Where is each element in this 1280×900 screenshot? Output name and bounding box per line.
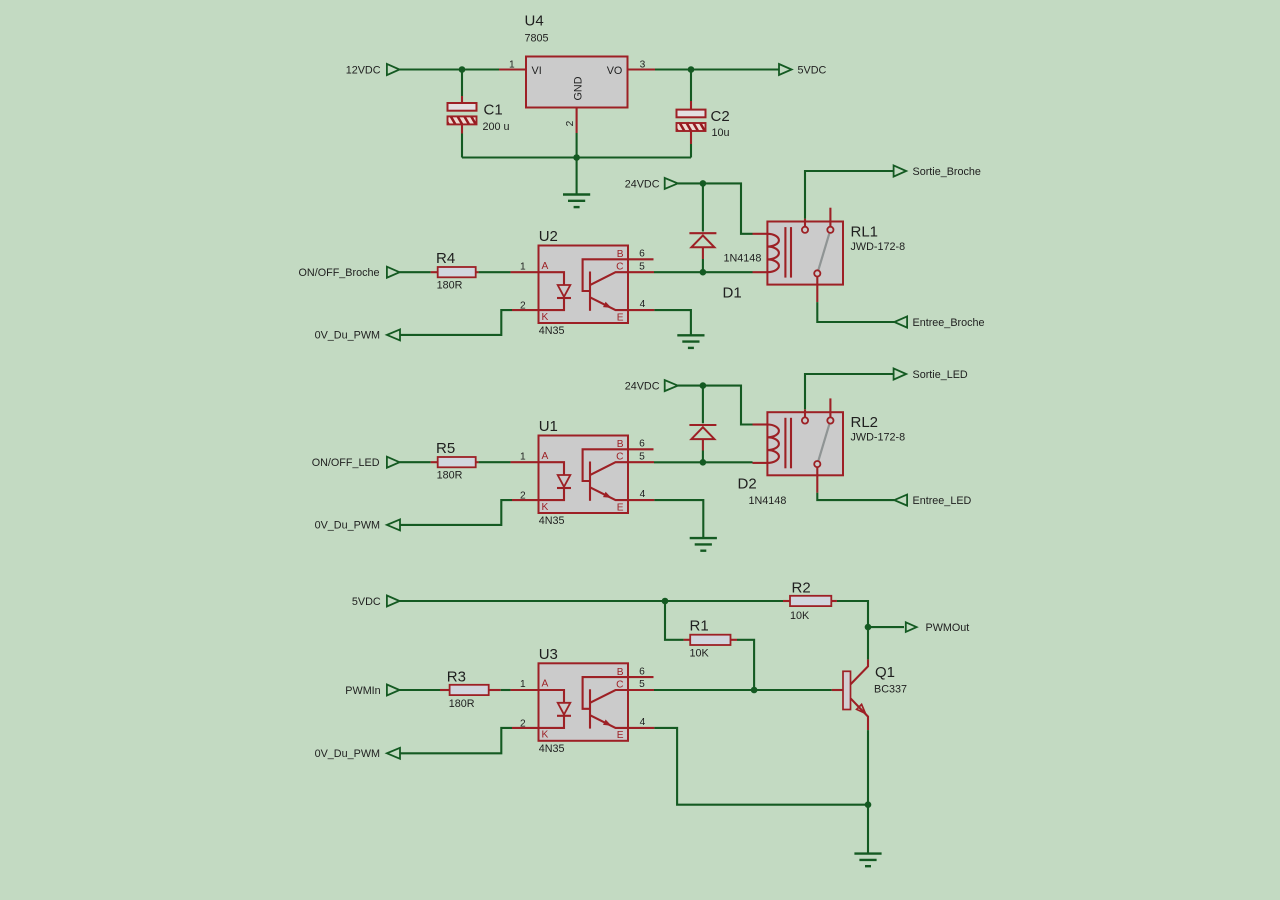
wire to R5 — [400, 461, 431, 463]
ground — [854, 854, 881, 867]
node VO junction — [688, 66, 695, 73]
wire diode top — [702, 386, 704, 424]
svg-text:JWD-172-8: JWD-172-8 — [851, 241, 906, 253]
svg-text:0V_Du_PWM: 0V_Du_PWM — [315, 520, 380, 532]
wire relay common to Entree_LED — [817, 493, 894, 500]
terminal Entree_Broche — [894, 316, 907, 327]
svg-text:Entree_LED: Entree_LED — [913, 495, 972, 507]
wire emitter down — [867, 730, 869, 805]
pin 3 stub U4 — [628, 68, 656, 70]
svg-text:180R: 180R — [437, 280, 463, 292]
svg-text:180R: 180R — [437, 470, 463, 482]
svg-text:5VDC: 5VDC — [798, 65, 827, 77]
wire R1 to base node — [737, 640, 754, 690]
svg-text:200 u: 200 u — [483, 121, 510, 133]
resistor R1 10K — [684, 639, 691, 641]
svg-text:Q1: Q1 — [875, 664, 895, 681]
wire R2 to collector node — [837, 601, 868, 627]
diode D1 1N4148 — [689, 232, 716, 234]
ground — [677, 335, 704, 348]
svg-text:2: 2 — [565, 120, 576, 126]
svg-text:RL2: RL2 — [851, 414, 879, 431]
svg-text:R4: R4 — [436, 250, 455, 267]
wire 24VDC — [678, 182, 703, 184]
ground rail wire — [462, 156, 691, 158]
transistor Q1 BC337 — [843, 671, 851, 709]
svg-text:4N35: 4N35 — [539, 325, 565, 337]
node base junction — [751, 687, 758, 694]
resistor R5 180R — [431, 461, 438, 463]
terminal Sortie_Broche — [894, 165, 907, 176]
optocoupler U2 4N35 — [511, 246, 655, 324]
resistor R2 10K — [783, 600, 790, 602]
node 24VDC junction — [700, 180, 707, 187]
svg-text:Entree_Broche: Entree_Broche — [913, 317, 985, 329]
diode D2 1N4148 — [689, 424, 716, 426]
wire PWMIn to R3 — [400, 689, 441, 691]
relay RL2 — [753, 398, 844, 492]
wire to PWMOut — [868, 626, 904, 628]
wire to R4 — [400, 271, 431, 273]
optocoupler U1 4N35 — [511, 436, 655, 514]
resistor R3 180R — [440, 689, 450, 691]
wire to ground — [576, 158, 578, 195]
terminal 0V_Du_PWM — [387, 519, 400, 530]
svg-text:C2: C2 — [711, 108, 730, 125]
wire R5 to opto pin1 — [479, 461, 511, 463]
wire diode top — [702, 183, 704, 231]
svg-text:10u: 10u — [712, 127, 730, 139]
wire 12VDC to U4 — [400, 68, 500, 70]
wire relay common to Entree_Broche — [817, 302, 894, 322]
svg-text:4N35: 4N35 — [539, 743, 565, 755]
wire to ground — [867, 805, 869, 854]
svg-text:12VDC: 12VDC — [346, 65, 381, 77]
terminal PWMOut — [906, 622, 917, 632]
wire 5VDC rail — [400, 600, 784, 602]
wire diode bottom — [702, 259, 704, 272]
svg-text:1N4148: 1N4148 — [724, 253, 762, 265]
wire C1 top — [461, 70, 463, 97]
svg-text:U4: U4 — [525, 13, 544, 30]
svg-text:R1: R1 — [690, 618, 709, 635]
node VI junction — [459, 66, 466, 73]
wire 24VDC — [678, 385, 703, 387]
svg-text:U1: U1 — [539, 418, 558, 435]
base pin stub Q1 — [832, 689, 843, 691]
svg-text:10K: 10K — [690, 648, 710, 660]
wire R4 to opto pin1 — [479, 271, 511, 273]
wire opto pin4 to ground — [654, 500, 703, 538]
node coil bottom junction — [700, 269, 707, 276]
wire 24VDC to relay coil top — [703, 386, 753, 425]
node PWMOut junction — [865, 624, 872, 631]
svg-text:U3: U3 — [539, 646, 558, 663]
svg-text:U2: U2 — [539, 228, 558, 245]
relay RL1 — [753, 208, 844, 302]
wire C2 top — [690, 70, 692, 102]
svg-text:180R: 180R — [449, 698, 475, 710]
terminal Entree_LED — [894, 495, 907, 506]
wire C1 bottom — [461, 125, 463, 134]
wire diode bottom — [702, 451, 704, 463]
svg-text:PWMOut: PWMOut — [926, 622, 970, 634]
svg-text:0V_Du_PWM: 0V_Du_PWM — [315, 748, 380, 760]
optocoupler U3 4N35 — [511, 663, 655, 741]
node GND junction — [573, 154, 580, 161]
svg-text:0V_Du_PWM: 0V_Du_PWM — [315, 330, 380, 342]
wire opto pin5 to transistor base — [654, 689, 832, 691]
wire relay pin to Sortie_LED — [805, 374, 894, 409]
svg-text:R3: R3 — [447, 669, 466, 686]
svg-text:3: 3 — [640, 60, 646, 71]
svg-text:10K: 10K — [790, 610, 810, 622]
wire R3 to opto pin1 — [501, 689, 511, 691]
wire U4 GND down — [576, 133, 578, 158]
svg-text:R5: R5 — [436, 440, 455, 457]
svg-text:D1: D1 — [723, 285, 742, 302]
node 5VDC junction — [662, 598, 669, 605]
resistor R4 180R — [431, 271, 438, 273]
wire opto to relay coil — [654, 271, 753, 273]
wire C2 bottom — [690, 131, 692, 145]
wire opto pin2 to 0V_Du_PWM — [400, 310, 512, 335]
wire collector up — [867, 627, 869, 659]
svg-text:ON/OFF_Broche: ON/OFF_Broche — [299, 267, 380, 279]
ground — [690, 538, 717, 551]
svg-text:JWD-172-8: JWD-172-8 — [851, 432, 906, 444]
capacitor C2 — [677, 110, 706, 131]
wire opto pin2 to 0V_Du_PWM — [400, 500, 512, 525]
svg-text:7805: 7805 — [525, 33, 549, 45]
svg-text:C1: C1 — [484, 102, 503, 119]
wire 5VDC to R1 — [665, 601, 684, 640]
svg-text:4N35: 4N35 — [539, 515, 565, 527]
svg-text:24VDC: 24VDC — [625, 381, 660, 393]
wire opto pin4 to emitter rail — [654, 728, 868, 805]
svg-text:RL1: RL1 — [851, 224, 879, 241]
wire VO to 5VDC — [655, 68, 779, 70]
pin 2 stub U4 — [576, 108, 578, 134]
svg-text:ON/OFF_LED: ON/OFF_LED — [312, 457, 380, 469]
pin 1 stub U4 — [499, 68, 526, 70]
svg-text:VI: VI — [532, 65, 542, 77]
terminal 0V_Du_PWM — [387, 329, 400, 340]
svg-text:D2: D2 — [738, 476, 757, 493]
regulator U4 — [526, 57, 628, 108]
wire opto pin4 to ground — [654, 310, 691, 335]
capacitor C1 — [448, 103, 477, 124]
svg-text:VO: VO — [607, 65, 623, 77]
wire relay pin to Sortie_Broche — [805, 171, 894, 219]
svg-text:Sortie_LED: Sortie_LED — [913, 369, 968, 381]
svg-text:24VDC: 24VDC — [625, 179, 660, 191]
wire 24VDC to relay coil top — [703, 183, 753, 233]
svg-text:GND: GND — [573, 76, 585, 100]
svg-text:1N4148: 1N4148 — [749, 495, 787, 507]
terminal 0V_Du_PWM — [387, 748, 400, 759]
svg-text:BC337: BC337 — [874, 684, 907, 696]
node coil bottom junction — [700, 459, 707, 466]
wire opto pin2 to 0V_Du_PWM — [400, 728, 512, 753]
svg-text:1: 1 — [509, 60, 515, 71]
svg-text:Sortie_Broche: Sortie_Broche — [913, 166, 981, 178]
node emitter junction — [865, 801, 872, 808]
wire opto to relay coil — [654, 461, 753, 463]
terminal 5VDC — [779, 64, 792, 75]
ground — [563, 195, 590, 208]
terminal Sortie_LED — [894, 368, 907, 379]
svg-text:PWMIn: PWMIn — [345, 685, 380, 697]
svg-text:5VDC: 5VDC — [352, 596, 381, 608]
svg-text:R2: R2 — [792, 580, 811, 597]
node 24VDC junction — [700, 382, 707, 389]
